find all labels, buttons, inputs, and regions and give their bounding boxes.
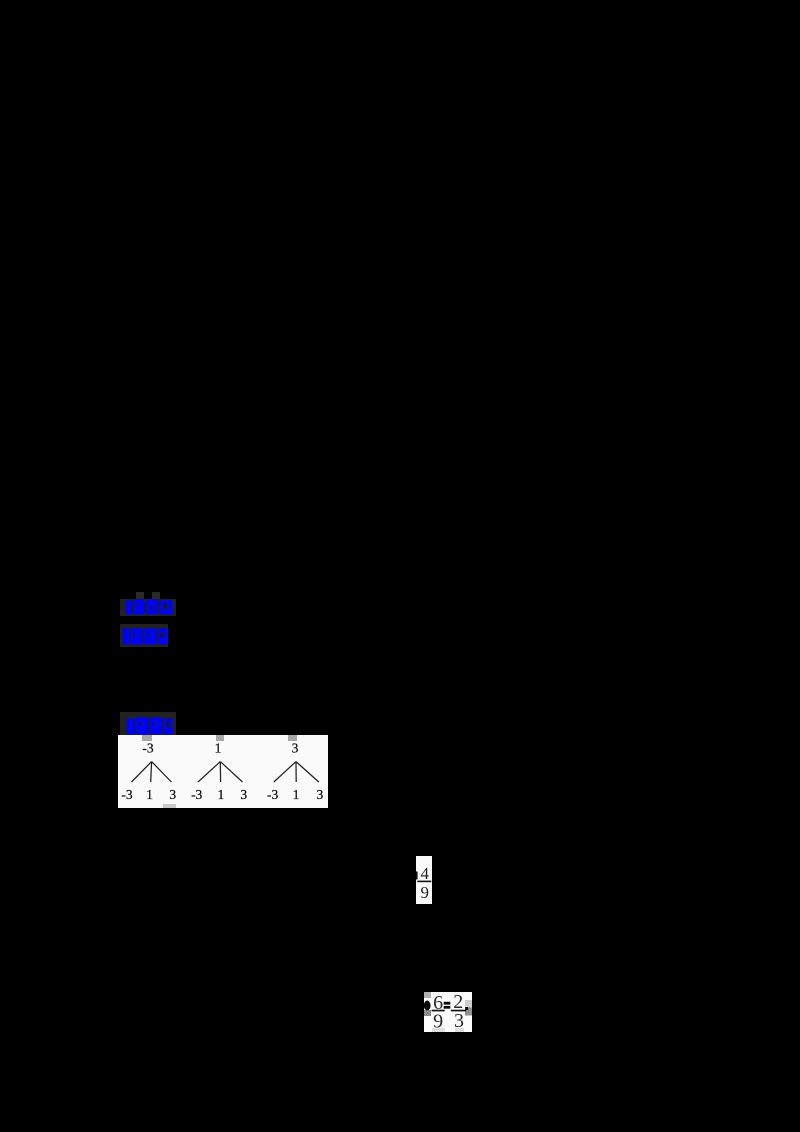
equals sign [444,1002,451,1005]
gray tab artifacts above label 1 [136,592,144,600]
svg-text:1: 1 [218,787,225,802]
svg-text:3: 3 [317,787,324,802]
tree 2 lines [198,762,220,782]
fraction lines [432,1010,445,1012]
svg-text:3: 3 [292,741,299,756]
svg-text:3: 3 [240,787,247,802]
svg-text:9: 9 [433,1010,443,1032]
bottom gray artifact [163,804,176,808]
svg-text:1: 1 [215,741,222,756]
svg-text:9: 9 [420,883,429,902]
label 1: blue 考点 label on dark box [120,599,176,616]
top edge gray artifacts [142,735,152,741]
gray artifacts [424,992,431,998]
svg-text:3: 3 [454,1010,464,1032]
label 3: blue 解答 label on dark box [120,712,176,735]
svg-text:-3: -3 [267,787,278,802]
svg-text:-3: -3 [142,741,153,756]
black blob at left [424,1001,431,1011]
svg-text:-3: -3 [191,787,202,802]
svg-text:1: 1 [293,787,300,802]
fraction 4/9 white box [416,856,432,904]
period dot [465,1007,468,1010]
tree 1 lines [132,762,152,782]
svg-text:3: 3 [169,787,176,802]
tree diagram white box [118,735,328,808]
label 2: blue 分析 label on dark box [120,624,168,647]
tree 3 lines [274,762,296,782]
svg-text:-3: -3 [121,787,132,802]
svg-text:4: 4 [420,864,429,883]
svg-text:1: 1 [146,787,153,802]
fraction 6/9 = 2/3 white box [424,992,472,1032]
